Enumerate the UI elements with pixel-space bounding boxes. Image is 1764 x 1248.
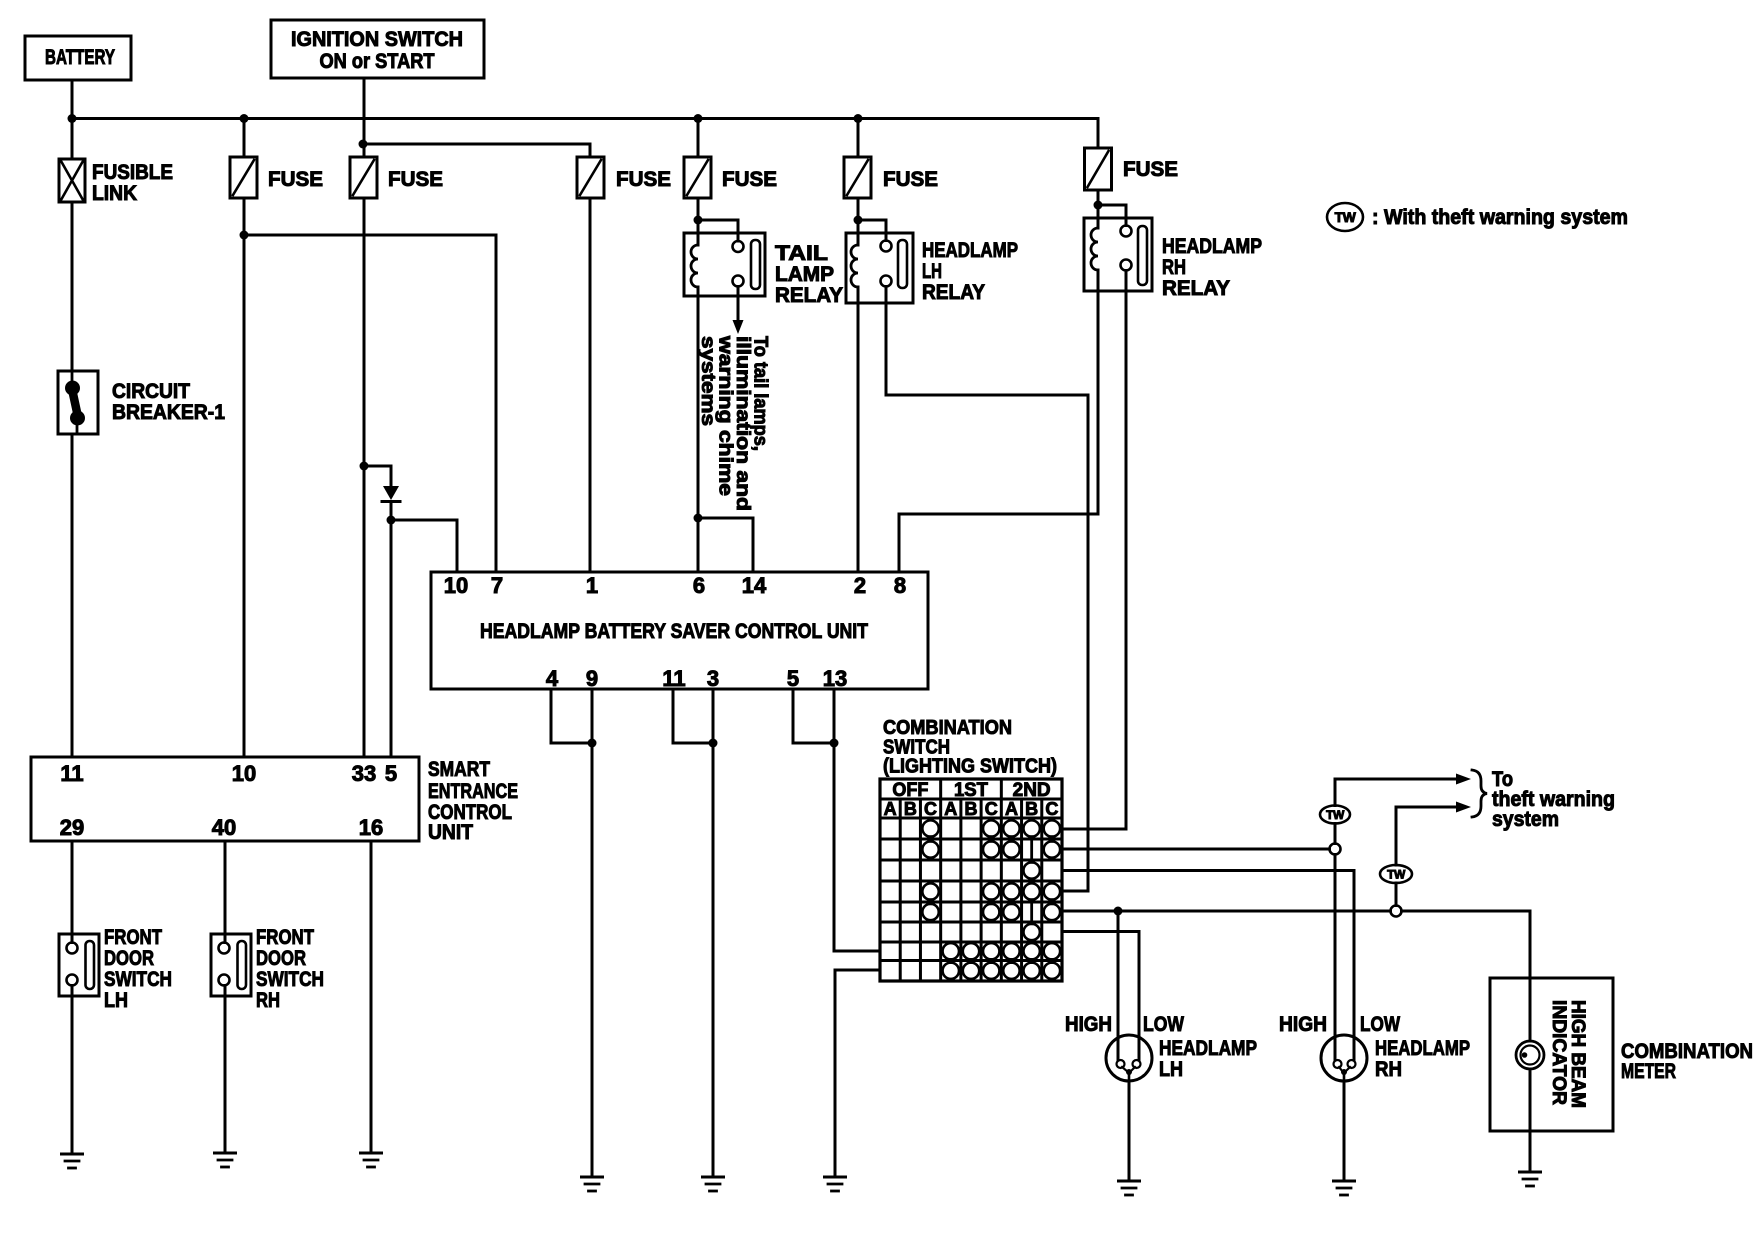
svg-text:SWITCH: SWITCH <box>104 968 172 991</box>
svg-text:RELAY: RELAY <box>922 281 985 304</box>
svg-text:FRONT: FRONT <box>104 926 162 949</box>
svg-text:A: A <box>1005 799 1018 819</box>
svg-text:4: 4 <box>546 666 559 691</box>
svg-text:TAIL: TAIL <box>775 242 828 265</box>
svg-text:TW: TW <box>1326 808 1345 822</box>
svg-text:ENTRANCE: ENTRANCE <box>428 780 518 803</box>
svg-text:2ND: 2ND <box>1013 780 1051 801</box>
svg-text:C: C <box>924 799 937 819</box>
svg-text:DOOR: DOOR <box>104 947 154 970</box>
svg-text:RELAY: RELAY <box>775 284 843 307</box>
svg-text:LH: LH <box>922 260 942 283</box>
svg-text:3: 3 <box>707 666 719 691</box>
svg-text:METER: METER <box>1621 1060 1676 1083</box>
svg-text:HEADLAMP: HEADLAMP <box>1159 1037 1257 1060</box>
svg-text:FUSE: FUSE <box>1123 158 1178 181</box>
svg-text:RH: RH <box>256 989 280 1012</box>
svg-text:LINK: LINK <box>92 182 137 205</box>
svg-text:1ST: 1ST <box>954 780 988 801</box>
svg-text:HEADLAMP: HEADLAMP <box>1162 235 1262 258</box>
svg-text:UNIT: UNIT <box>428 821 473 844</box>
svg-text:16: 16 <box>359 815 383 840</box>
svg-text:HIGH BEAM: HIGH BEAM <box>1567 1000 1588 1108</box>
svg-text:1: 1 <box>586 573 598 598</box>
svg-text:HEADLAMP: HEADLAMP <box>922 239 1018 262</box>
svg-text:29: 29 <box>60 815 84 840</box>
svg-text:LH: LH <box>1159 1058 1183 1081</box>
svg-text:FUSE: FUSE <box>268 168 323 191</box>
svg-text:OFF: OFF <box>892 780 928 801</box>
svg-text:CIRCUIT: CIRCUIT <box>112 380 190 403</box>
svg-text:FUSE: FUSE <box>722 168 777 191</box>
svg-text:system: system <box>1492 808 1559 831</box>
svg-text:BATTERY: BATTERY <box>45 46 115 69</box>
svg-text:: With theft warning system: : With theft warning system <box>1372 206 1628 229</box>
svg-text:11: 11 <box>662 666 685 691</box>
svg-text:10: 10 <box>444 573 468 598</box>
svg-text:9: 9 <box>586 666 598 691</box>
svg-text:RH: RH <box>1375 1058 1402 1081</box>
svg-text:10: 10 <box>232 761 256 786</box>
svg-text:SMART: SMART <box>428 758 490 781</box>
svg-text:LOW: LOW <box>1143 1013 1184 1036</box>
svg-text:TW: TW <box>1387 867 1406 881</box>
svg-text:(LIGHTING SWITCH): (LIGHTING SWITCH) <box>883 756 1057 778</box>
svg-text:6: 6 <box>693 573 705 598</box>
svg-text:7: 7 <box>491 573 503 598</box>
svg-text:TW: TW <box>1335 209 1357 225</box>
svg-text:LOW: LOW <box>1360 1013 1400 1036</box>
svg-text:INDICATOR: INDICATOR <box>1548 1000 1569 1105</box>
svg-text:11: 11 <box>60 761 83 786</box>
svg-text:LAMP: LAMP <box>775 263 834 286</box>
svg-text:RH: RH <box>1162 256 1186 279</box>
svg-text:40: 40 <box>212 815 236 840</box>
svg-text:IGNITION SWITCH: IGNITION SWITCH <box>291 28 463 51</box>
svg-text:HIGH: HIGH <box>1279 1013 1327 1036</box>
svg-text:2: 2 <box>854 573 866 598</box>
svg-text:BREAKER-1: BREAKER-1 <box>112 401 225 424</box>
svg-text:5: 5 <box>787 666 799 691</box>
svg-text:33: 33 <box>352 761 376 786</box>
svg-text:SWITCH: SWITCH <box>256 968 324 991</box>
svg-text:HEADLAMP BATTERY SAVER CONTROL: HEADLAMP BATTERY SAVER CONTROL UNIT <box>480 620 868 643</box>
svg-text:HEADLAMP: HEADLAMP <box>1375 1037 1470 1060</box>
svg-text:A: A <box>884 799 897 819</box>
svg-text:C: C <box>985 799 998 819</box>
svg-text:8: 8 <box>894 573 906 598</box>
svg-text:FUSE: FUSE <box>616 168 671 191</box>
svg-text:LH: LH <box>104 989 128 1012</box>
svg-text:HIGH: HIGH <box>1065 1013 1112 1036</box>
svg-text:RELAY: RELAY <box>1162 277 1230 300</box>
svg-text:A: A <box>944 799 957 819</box>
svg-text:FUSE: FUSE <box>883 168 938 191</box>
svg-text:B: B <box>965 799 978 819</box>
svg-text:5: 5 <box>385 761 397 786</box>
svg-text:FUSIBLE: FUSIBLE <box>92 161 173 184</box>
svg-text:B: B <box>904 799 917 819</box>
svg-text:systems: systems <box>697 336 718 426</box>
svg-text:B: B <box>1025 799 1038 819</box>
svg-text:13: 13 <box>823 666 847 691</box>
svg-text:ON or START: ON or START <box>320 50 435 73</box>
svg-text:14: 14 <box>742 573 767 598</box>
svg-text:FRONT: FRONT <box>256 926 314 949</box>
svg-text:C: C <box>1045 799 1058 819</box>
svg-text:DOOR: DOOR <box>256 947 306 970</box>
svg-text:FUSE: FUSE <box>388 168 443 191</box>
